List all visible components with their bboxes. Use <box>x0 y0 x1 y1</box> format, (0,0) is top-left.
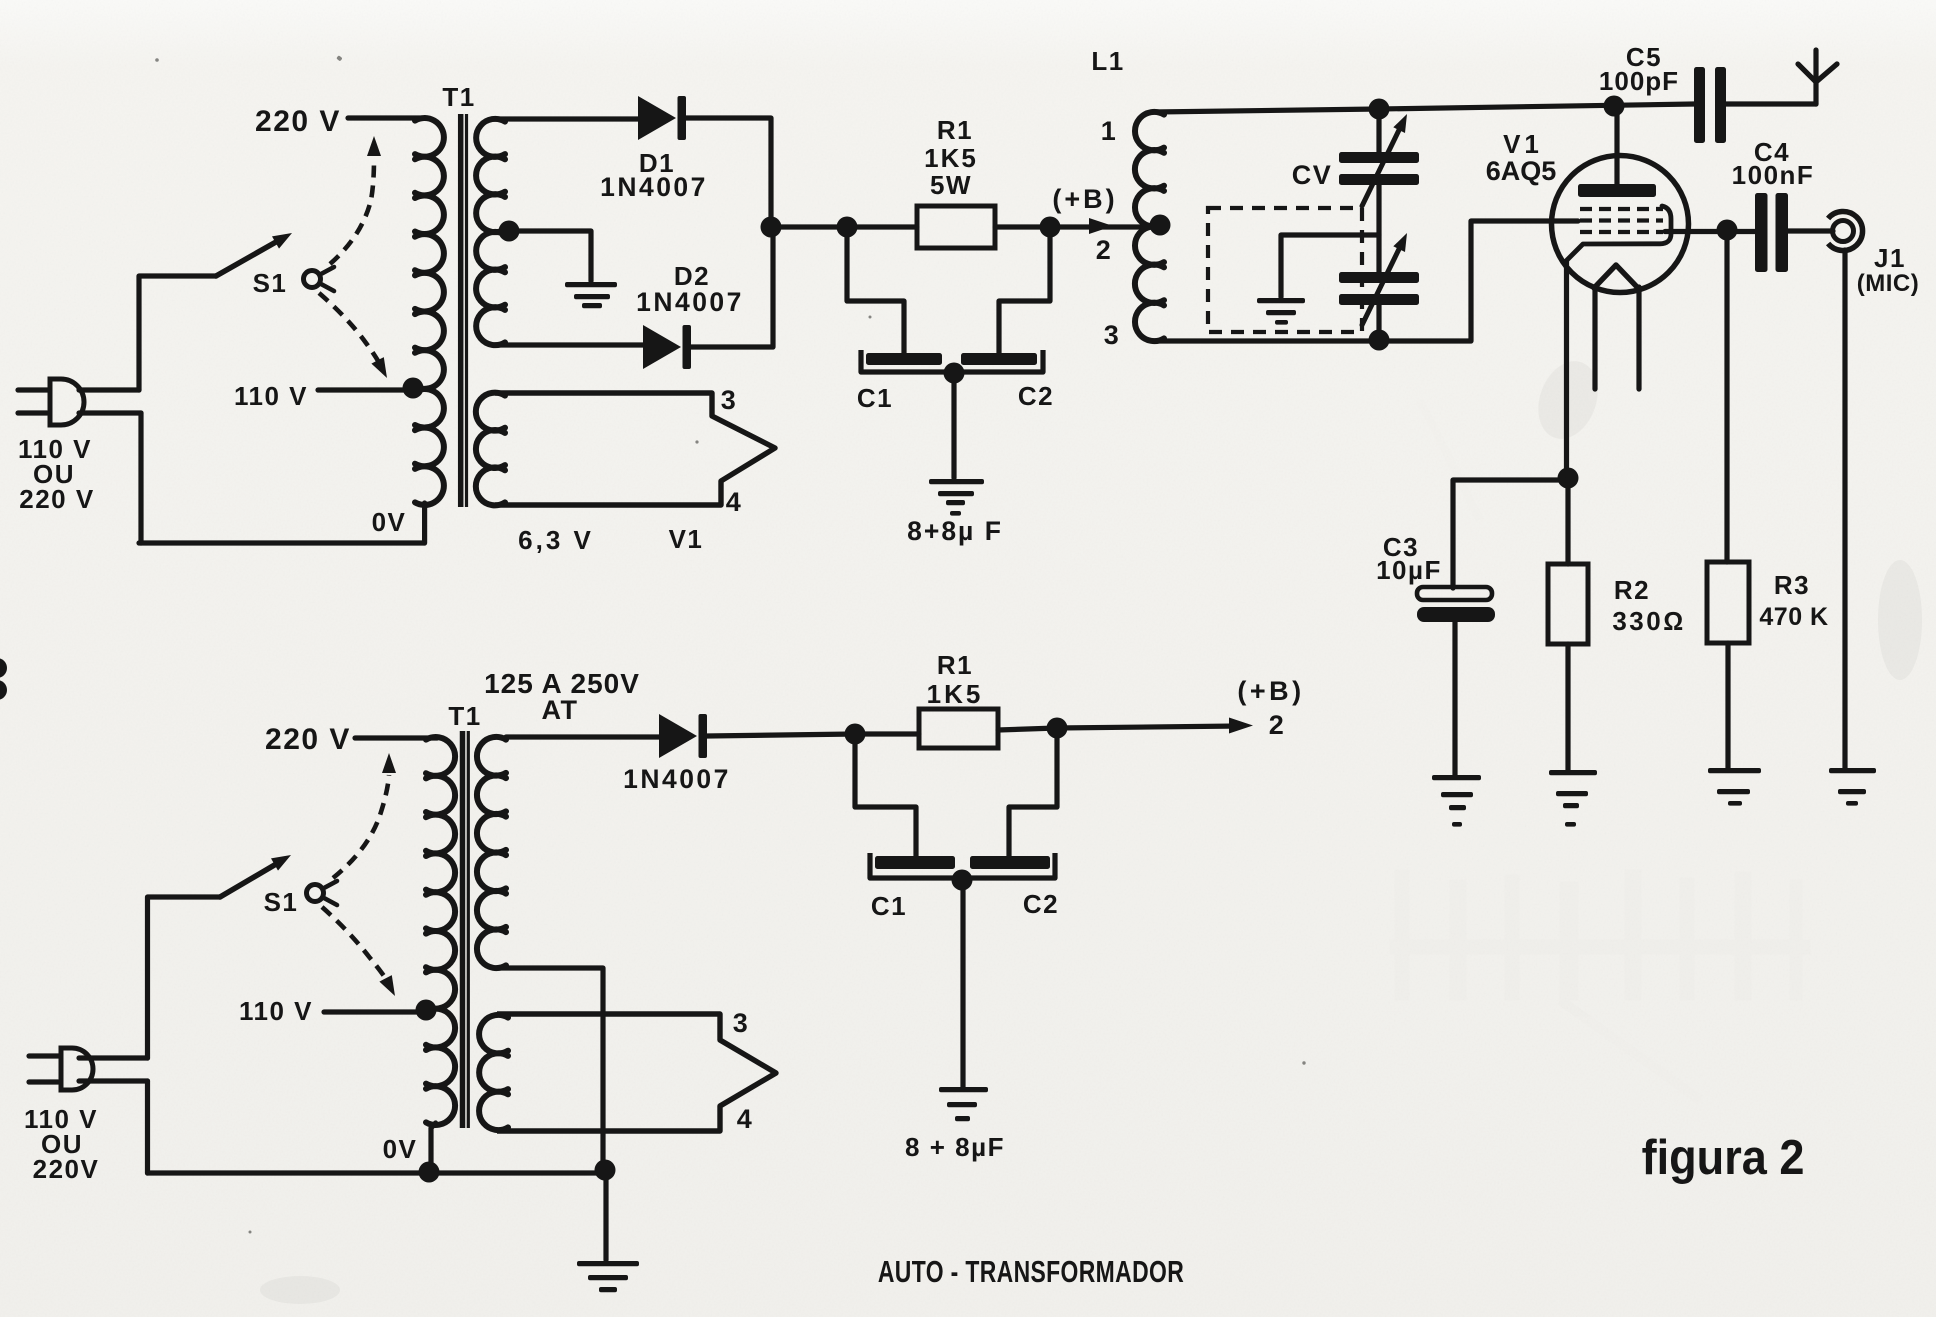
svg-text:(+B): (+B) <box>1237 676 1304 706</box>
label 110V OU 220V (bottom plug) <box>24 1104 99 1184</box>
svg-text:1N4007: 1N4007 <box>600 172 708 202</box>
ground (C3) <box>1432 775 1481 827</box>
svg-text:4: 4 <box>737 1104 754 1134</box>
transformer T1 primary winding (top) <box>415 118 444 543</box>
wire riser to 0V rail (bottom) <box>145 1081 150 1173</box>
capacitor C1-C2 can (bottom) <box>870 853 1055 878</box>
wire C4 junction to R3 <box>1724 232 1729 563</box>
wire C1 riser <box>847 227 904 353</box>
node 110V tap on primary <box>403 378 424 399</box>
wire C2 riser <box>999 227 1050 353</box>
svg-text:6AQ5: 6AQ5 <box>1486 156 1557 186</box>
svg-text:100nF: 100nF <box>1732 160 1815 190</box>
svg-text:8 + 8µF: 8 + 8µF <box>905 1132 1005 1162</box>
label R3 <box>1774 570 1810 600</box>
label V1 (filament) <box>669 524 704 554</box>
svg-text:4: 4 <box>726 487 743 517</box>
label D1 <box>639 148 675 178</box>
svg-text:AT: AT <box>542 695 579 725</box>
label figura 2 <box>1642 1129 1805 1184</box>
node C1C2 ground tap <box>944 363 965 384</box>
svg-text:220 V: 220 V <box>255 105 341 138</box>
wire L1 top to C5 <box>1154 104 1694 112</box>
wire C1C2 to ground <box>951 373 956 478</box>
svg-text:R1: R1 <box>937 650 973 680</box>
label (+B) (top) <box>1052 184 1117 214</box>
wire rail to ground (bottom) <box>603 1172 608 1260</box>
svg-text:100pF: 100pF <box>1599 66 1679 96</box>
svg-text:1N4007: 1N4007 <box>623 764 731 794</box>
svg-text:3: 3 <box>1104 320 1121 350</box>
svg-text:R3: R3 <box>1774 570 1810 600</box>
node anode/C5 junction <box>1604 96 1625 117</box>
svg-text:5W: 5W <box>930 170 972 200</box>
label J1 <box>1874 243 1906 273</box>
svg-text:8+8µ F: 8+8µ F <box>907 516 1003 546</box>
label pin 3 (top chevron) <box>721 385 738 415</box>
plug P1 body (bottom) <box>61 1048 93 1090</box>
ground (R3) <box>1708 768 1761 806</box>
wire plug to riser (top prong) <box>79 387 139 392</box>
ground (R2) <box>1549 770 1597 827</box>
capacitor C1 plate (bottom) <box>875 856 955 869</box>
capacitor C3 (electrolytic) <box>1417 587 1495 622</box>
resistor R3 <box>1707 562 1749 643</box>
chevron to V1 pins 3-4 (top) <box>495 393 775 505</box>
label (MIC) <box>1857 270 1919 297</box>
plug P1 prongs (bottom) <box>29 1056 59 1082</box>
label D2 <box>674 261 710 291</box>
resistor R1 (top) <box>917 206 995 248</box>
switch S1 pivot contact <box>304 267 335 291</box>
svg-text:C1: C1 <box>871 891 907 921</box>
label 1K5 (bottom) <box>927 679 984 709</box>
wire riser to switch (bottom) <box>148 897 221 1058</box>
arrow +B (bottom) <box>1229 718 1253 734</box>
label R1 (top) <box>937 115 973 145</box>
transformer T1 core (top) <box>461 114 467 507</box>
switch S1 blade (bottom) <box>220 855 291 897</box>
label 0V <box>372 507 407 537</box>
label T1 (top transformer) <box>442 82 475 112</box>
svg-text:2: 2 <box>1269 710 1286 740</box>
label 0V (bottom) <box>383 1134 418 1164</box>
svg-text:220 V: 220 V <box>265 723 351 756</box>
svg-text:(+B): (+B) <box>1052 184 1117 214</box>
transformer T1 6.3V winding (top) <box>476 393 505 506</box>
diode D (bottom) 1N4007 <box>659 714 707 758</box>
wire D2 to junction <box>691 227 773 347</box>
wire L1 bottom to grid riser <box>1154 221 1578 341</box>
wire 110V tap (bottom) <box>324 1009 426 1014</box>
svg-text:AUTO - TRANSFORMADOR: AUTO - TRANSFORMADOR <box>878 1254 1184 1289</box>
svg-text:R1: R1 <box>937 115 973 145</box>
label pin 4 (bottom chevron) <box>737 1104 754 1134</box>
tube V1 beam plate <box>1566 206 1671 261</box>
svg-text:1K5: 1K5 <box>927 679 984 709</box>
switch S1 blade <box>216 233 292 276</box>
svg-text:3: 3 <box>733 1008 750 1038</box>
resistor R1 (bottom) <box>919 709 998 748</box>
wire C4 to J1 <box>1788 228 1833 233</box>
svg-text:S1: S1 <box>253 268 288 298</box>
ground (0V rail bottom) <box>577 1261 639 1292</box>
label 220 V (primary tap) <box>255 105 341 138</box>
label C5 <box>1626 42 1662 72</box>
dashed gang box (CV) <box>1208 208 1362 332</box>
svg-text:110 V: 110 V <box>234 381 308 411</box>
ground (J1) <box>1829 768 1876 806</box>
wire 0V rail <box>139 540 424 545</box>
label AUTO-TRANSFORMADOR <box>878 1254 1184 1289</box>
svg-text:L1: L1 <box>1091 46 1124 76</box>
wire C1C2 to ground (bottom) <box>960 880 965 1087</box>
tube V1 cathode <box>1594 265 1638 288</box>
wire C5 to antenna <box>1726 101 1816 106</box>
transformer T1 HV secondary winding (top) <box>476 119 505 345</box>
wire grid output to C4 <box>1665 229 1755 234</box>
wire R2 to ground <box>1565 644 1570 770</box>
diode D1 <box>638 96 686 140</box>
capacitor C1 plate (top) <box>866 353 942 365</box>
label C4 <box>1754 137 1790 167</box>
svg-text:1: 1 <box>1101 116 1118 146</box>
label V1 (tube) <box>1503 129 1543 159</box>
svg-text:1K5: 1K5 <box>924 143 978 173</box>
ground (C1 C2 top) <box>929 479 984 516</box>
wire J1 to ground <box>1842 250 1847 768</box>
transformer T1 HV winding (bottom) <box>477 737 603 1170</box>
switch S1 dashed travel arc down <box>319 293 387 378</box>
wire C1 riser (bottom) <box>855 734 916 857</box>
capacitor C2 plate (bottom) <box>970 856 1050 869</box>
wire 220V tap to primary (bottom) <box>355 735 437 740</box>
label R2 <box>1614 575 1650 605</box>
wire CV rotor to ground <box>1281 235 1379 297</box>
label R1 (bottom) <box>937 650 973 680</box>
node secondary center tap <box>499 221 520 242</box>
svg-text:C2: C2 <box>1023 889 1059 919</box>
resistor R2 <box>1548 564 1588 644</box>
tube V1 grid (dashed) <box>1580 209 1663 232</box>
node 0V/ground junction <box>595 1160 616 1181</box>
wire R1 to +B node <box>995 224 1160 229</box>
wire secondary top to D1 <box>495 116 638 121</box>
node CV top junction <box>1369 99 1390 120</box>
label 6AQ5 <box>1486 156 1557 186</box>
label 1K5 (top) <box>924 143 978 173</box>
label 1N4007 (D2) <box>636 287 744 317</box>
node CV bottom junction <box>1369 330 1390 351</box>
svg-text:220V: 220V <box>33 1154 100 1184</box>
svg-text:figura 2: figura 2 <box>1642 1129 1805 1184</box>
svg-text:3: 3 <box>721 385 738 415</box>
wire R1 to +B (bottom) <box>998 726 1240 730</box>
node rectifier output <box>761 217 782 238</box>
switch S1 dashed arc up (bottom) <box>333 753 396 878</box>
label T1 (bottom transformer) <box>448 701 481 731</box>
label pin 1 (L1) <box>1101 116 1118 146</box>
label C3 <box>1383 532 1419 562</box>
svg-text:1N4007: 1N4007 <box>636 287 744 317</box>
transformer T1 6.3V winding (bottom) <box>479 1015 508 1130</box>
svg-text:6,3 V: 6,3 V <box>518 525 594 555</box>
plug P1 (mains) prongs <box>18 390 48 413</box>
capacitor C1-C2 can (top) <box>861 350 1043 372</box>
label 100nF <box>1732 160 1815 190</box>
label AT <box>542 695 579 725</box>
wire plug to riser (bottom circuit top prong) <box>79 1055 148 1060</box>
node R1 left junction (bottom) <box>845 724 866 745</box>
label 5W <box>930 170 972 200</box>
label 10uF <box>1376 555 1442 585</box>
wire D1 to junction <box>686 118 771 227</box>
wire diode to R1 (bottom) <box>707 734 919 736</box>
transformer T1 primary winding (bottom) <box>426 737 455 1172</box>
label 125 A 250V <box>484 668 640 699</box>
node cathode/C3/R2 junction <box>1558 468 1579 489</box>
svg-text:220 V: 220 V <box>19 484 94 514</box>
node C1C2 ground tap (bottom) <box>952 870 973 891</box>
node 0V/primary junction <box>419 1162 440 1183</box>
node L1 tap (+B) <box>1150 215 1171 236</box>
svg-text:330Ω: 330Ω <box>1612 606 1685 636</box>
chevron to V1 pins 3-4 (bottom) <box>497 1014 776 1131</box>
wire plug to riser (bottom circuit bottom prong) <box>79 1078 148 1083</box>
wire CV bottom lead <box>1376 305 1381 340</box>
svg-text:0V: 0V <box>372 507 407 537</box>
node C1 tap <box>837 217 858 238</box>
label 110 V (bottom tap) <box>239 996 313 1026</box>
tube V1 anode <box>1578 106 1656 197</box>
coil L1 <box>1135 112 1164 341</box>
node 110V tap (bottom) <box>416 1000 437 1021</box>
label 110V OU 220V (plug) <box>18 434 95 514</box>
wire CV middle lead <box>1376 185 1381 272</box>
label 470K <box>1759 603 1828 631</box>
tube V1 envelope <box>1552 156 1689 293</box>
partial glyph at left edge <box>0 658 7 700</box>
switch S1 dashed arc down (bottom) <box>322 907 395 996</box>
label (+B) (bottom) <box>1237 676 1304 706</box>
wire cathode lead <box>1564 261 1569 478</box>
wire junction to R1 <box>771 224 917 229</box>
node C4 junction <box>1717 220 1738 241</box>
wire center tap to ground <box>509 231 591 281</box>
wire secondary bottom to D2 <box>495 342 643 347</box>
switch S1 dashed travel arc up <box>330 136 381 264</box>
svg-text:V1: V1 <box>1503 129 1543 159</box>
wire HV winding to diode (bottom) <box>506 734 659 739</box>
label L1 <box>1091 46 1124 76</box>
svg-text:110 V: 110 V <box>239 996 313 1026</box>
switch S1 pivot (bottom) <box>307 881 338 905</box>
label 330ohm <box>1612 606 1685 636</box>
wire junction to R2 <box>1565 478 1570 564</box>
label pin 3 (L1) <box>1104 320 1121 350</box>
wire C3 to ground <box>1452 622 1457 775</box>
wire junction to C3 <box>1453 480 1568 588</box>
wire 110V tap <box>318 387 413 392</box>
diode D2 <box>643 325 691 369</box>
label pin 4 (top chevron) <box>726 487 743 517</box>
svg-text:T1: T1 <box>442 82 475 112</box>
svg-text:0V: 0V <box>383 1134 418 1164</box>
label 110 V (primary tap) <box>234 381 308 411</box>
wire R3 to ground <box>1725 643 1730 768</box>
label 8 + 8uF (bottom) <box>905 1132 1005 1162</box>
arrow +B (top) <box>1089 218 1113 234</box>
label S1 (bottom) <box>264 887 299 917</box>
label C2 (bottom) <box>1023 889 1059 919</box>
svg-text:2: 2 <box>1096 235 1113 265</box>
variable capacitor CV section 1 <box>1339 114 1419 206</box>
svg-text:(MIC): (MIC) <box>1857 270 1919 297</box>
label 1N4007 (bottom) <box>623 764 731 794</box>
wire 0V rail (bottom) <box>148 1170 606 1175</box>
svg-text:V1: V1 <box>669 524 704 554</box>
label 100pF <box>1599 66 1679 96</box>
svg-text:C1: C1 <box>857 383 893 413</box>
wire 220V tap to T1 primary <box>348 115 426 120</box>
svg-text:470 K: 470 K <box>1759 603 1828 631</box>
label S1 <box>253 268 288 298</box>
capacitor C4 <box>1755 193 1788 272</box>
label pin 2 (L1) <box>1096 235 1113 265</box>
label pin 3 (bottom chevron) <box>733 1008 750 1038</box>
jack J1 <box>1828 212 1862 251</box>
label 2 (+B bottom) <box>1269 710 1286 740</box>
ground (CV rotor) <box>1257 298 1305 325</box>
wire CV top lead <box>1376 109 1381 152</box>
wire C2 riser (bottom) <box>1009 728 1057 857</box>
node C2 tap <box>1040 217 1061 238</box>
plug P1 body <box>50 379 84 425</box>
svg-text:J1: J1 <box>1874 243 1906 273</box>
svg-text:10µF: 10µF <box>1376 555 1442 585</box>
label C2 (top) <box>1018 381 1054 411</box>
label CV <box>1292 160 1333 190</box>
label 1N4007 (D1) <box>600 172 708 202</box>
svg-text:S1: S1 <box>264 887 299 917</box>
transformer T1 core (bottom) <box>463 731 469 1128</box>
label C1 (bottom) <box>871 891 907 921</box>
wire riser to 0V rail <box>138 413 143 543</box>
label 220 V (bottom primary tap) <box>265 723 351 756</box>
label C1 (top) <box>857 383 893 413</box>
variable capacitor CV section 2 <box>1339 233 1419 325</box>
svg-text:C2: C2 <box>1018 381 1054 411</box>
tube V1 filament leads <box>1595 287 1639 389</box>
label 6,3 V <box>518 525 594 555</box>
node R1 right junction (bottom) <box>1047 718 1068 739</box>
label 8+8uF (top) <box>907 516 1003 546</box>
ground (secondary center tap) <box>565 282 617 308</box>
capacitor C2 plate (top) <box>961 353 1037 365</box>
svg-text:R2: R2 <box>1614 575 1650 605</box>
wire plug to riser (bottom prong) <box>79 410 141 415</box>
capacitor C5 <box>1694 67 1726 143</box>
wire riser to switch <box>139 276 216 390</box>
antenna <box>1798 50 1837 104</box>
svg-text:T1: T1 <box>448 701 481 731</box>
ground (C1 C2 bottom) <box>939 1087 988 1121</box>
svg-text:CV: CV <box>1292 160 1333 190</box>
